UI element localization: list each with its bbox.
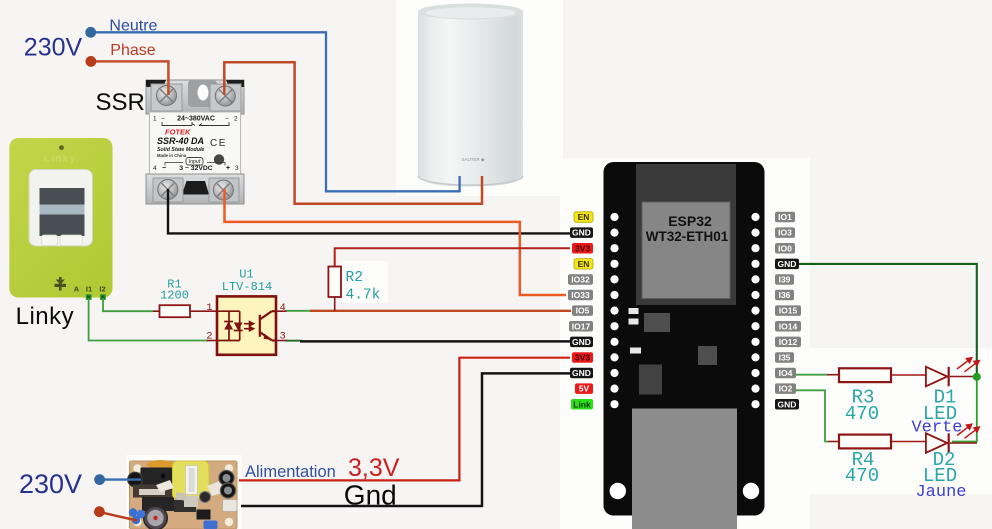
wire SSR terminal 4 to ESP32 GND (black) [168,189,570,233]
Linky top dot [59,145,64,150]
pin label GND2 [570,337,593,348]
svg-text:Phase: Phase [110,42,155,59]
pin label IO2 [775,383,796,394]
svg-text:IO3: IO3 [778,228,792,238]
wire 3V3 to PSU (red) [239,358,570,481]
LED D1 [911,357,980,438]
svg-text:I2: I2 [99,285,105,294]
resistor R2 [328,266,380,311]
svg-text:~: ~ [161,115,165,122]
SSR screw terminal 4 [153,178,183,202]
light arrows [244,322,254,331]
power supply module (PSU) [128,460,237,529]
indicator circle [214,154,224,164]
svg-text:470: 470 [845,465,879,487]
wire GND to opto pin 3 (black) [286,340,303,342]
white patch behind PSU [126,455,242,529]
pin label 5V [575,383,593,394]
svg-text:I35: I35 [779,353,791,363]
pin label IO33 [568,290,593,301]
pin label I36 [775,290,794,301]
svg-text:GND: GND [778,259,797,269]
neutre node dot [85,27,96,38]
svg-text:Jaune: Jaune [915,483,966,502]
PSU board [130,461,238,529]
wire 3V3 to R2 (red) [335,248,570,266]
optocoupler U1 LTV-814 [206,268,286,355]
SSR screw terminal 1 [157,86,177,106]
svg-text:IO2: IO2 [779,384,793,394]
resistor R3 [827,368,926,425]
white photo patch behind water heater [396,0,563,196]
svg-text:SAUTER ◆: SAUTER ◆ [462,157,486,162]
left pin labels [568,212,593,410]
Linky earth/arrow symbol [55,277,67,291]
wire Linky I1 to opto pin 2 (green) [89,298,207,341]
svg-text:LTV-814: LTV-814 [222,280,272,294]
input diodes structure [217,311,240,340]
pin label I35 [775,352,794,363]
neutre wire (blue) [91,32,460,191]
svg-text:IO4: IO4 [779,368,793,378]
svg-text:I36: I36 [779,290,791,300]
pin label EN [574,212,593,223]
svg-text:IO32: IO32 [571,275,590,285]
svg-text:230V: 230V [24,33,83,61]
pin label IO1 [775,212,795,223]
pin label GND right [775,259,799,270]
svg-text:1200: 1200 [160,289,189,303]
PSU input capacitor [128,472,143,487]
svg-text:EN: EN [578,212,590,222]
svg-text:Verte: Verte [911,419,962,438]
svg-text:GND: GND [572,228,591,238]
PSU white connector [223,500,238,512]
svg-text:5V: 5V [579,384,590,394]
svg-text:A: A [74,285,80,294]
SSR screw terminal 3 [209,178,239,202]
svg-text:4.7k: 4.7k [346,288,381,304]
svg-text:4: 4 [153,165,157,172]
resistor R4 [828,435,926,487]
svg-text:R2: R2 [346,270,363,286]
PSU yellow transformer [173,461,210,499]
diode A up [224,322,233,330]
pin holes right [751,213,759,408]
svg-text:I1: I1 [86,285,92,294]
svg-text:230V: 230V [19,469,82,499]
svg-text:Linky: Linky [16,303,75,330]
pin4 stub [276,310,287,312]
pin label IO15 [775,305,801,316]
SSR terminal block 2 [210,84,241,111]
wire GND to PSU (black) [241,373,570,506]
module area [636,164,736,305]
pin label GND [570,227,593,238]
PSU 230V blue input wire [97,478,141,480]
phase wire to SSR terminal 1 [91,61,168,95]
svg-text:EN: EN [578,259,590,269]
svg-text:IO1: IO1 [778,212,792,222]
svg-text:GND: GND [572,368,591,378]
PSU black heatsink [141,468,173,486]
svg-text:WT32-ETH01: WT32-ETH01 [646,229,729,244]
PSU big capacitor [144,506,168,529]
RJ45 connector [632,409,737,529]
wire green segment pin4 [286,310,311,312]
wire SSR terminal 2 to heater [224,62,482,204]
svg-text:+: + [226,165,230,172]
svg-text:IO15: IO15 [779,306,798,316]
pin label EN2 [574,259,593,270]
svg-text:SSR-40 DA: SSR-40 DA [157,136,204,146]
PSU lower black transistor block [142,497,174,511]
PSU black box bottom [197,510,211,520]
water heater [418,4,523,187]
svg-text:1: 1 [206,302,212,314]
SSR terminal block 1 [151,84,182,111]
svg-text:24~380VAC: 24~380VAC [177,115,215,122]
svg-text:IO0: IO0 [778,243,792,253]
pin label GND right2 [775,399,799,410]
phototransistor [260,311,276,340]
board PCB [604,162,765,516]
svg-text:3: 3 [235,165,239,172]
svg-text:~: ~ [225,115,229,122]
wire right GND to LED cathodes (dark green) [799,264,977,373]
svg-text:I39: I39 [779,275,791,285]
svg-text:Neutre: Neutre [109,18,157,35]
pin2 stub [207,340,218,342]
D1 emission arrows [957,357,981,372]
pin label 3V3 [572,243,593,254]
SSR body top metal section [146,80,244,114]
svg-text:Made in China: Made in China [157,153,187,158]
Linky body [9,138,112,298]
phase node dot [86,56,97,67]
wire SSR terminal 3 to IO33 (orange) [225,189,567,295]
white patch behind R2 label [342,261,388,303]
PSU white plastic bits [156,480,174,492]
PSU blue capacitors [129,508,137,516]
svg-text:−: − [162,165,166,172]
shield [642,202,730,299]
svg-text:3,3V: 3,3V [348,454,400,482]
PSU mid dark band [133,485,179,498]
wire IO5 to opto pin 4 [310,310,571,312]
svg-text:CE: CE [210,138,227,149]
pin label 3V3-2 [572,352,593,363]
junction node [973,373,981,381]
SMD parts [629,308,639,314]
svg-text:SSR: SSR [96,89,145,116]
pin label GND3 [570,368,593,379]
svg-text:Linky: Linky [44,153,76,165]
pin label IO0 [775,243,795,254]
right pin labels [775,212,801,410]
pin label IO14 [775,321,801,332]
pin3 stub [276,340,287,342]
pin label IO5 [572,305,593,316]
svg-text:GND: GND [778,399,797,409]
Linky meter [9,138,112,299]
ESP32 WT32-ETH01 board [604,162,765,529]
SSR bottom metal section [146,174,244,204]
mounting holes [610,483,626,499]
svg-text:Alimentation: Alimentation [245,463,336,481]
wire Linky I2 to R1 (green) [103,298,154,311]
pin holes left [610,213,618,408]
Linky buttons [42,235,58,246]
PSU output capacitors [219,470,234,485]
D2 emission arrows [957,423,981,438]
PSU orange capacitor [147,460,174,469]
Input box [186,158,203,166]
svg-text:3 ~ 32VDC: 3 ~ 32VDC [179,165,213,172]
pin label Link [571,399,593,410]
svg-text:IO14: IO14 [779,321,798,331]
pin label IO12 [775,337,801,348]
PSU small caps center [200,492,211,503]
svg-text:IO17: IO17 [572,321,591,331]
svg-text:Gnd: Gnd [344,479,397,510]
Linky terminal I2 [101,295,106,300]
LED D2 [915,423,980,502]
svg-text:IO33: IO33 [571,290,590,300]
PSU blue node dot [94,474,105,485]
pin label I39 [775,274,794,285]
svg-text:IO12: IO12 [779,337,798,347]
pin label IO32 [568,274,593,285]
SSR white label face [150,112,241,174]
PSU red node dot [94,506,105,517]
Linky terminal I1 [86,295,91,300]
white patch behind LED schematic [800,348,992,494]
svg-text:IO5: IO5 [576,306,590,316]
svg-text:1: 1 [153,115,157,122]
PSU 230V red input wire [98,512,137,521]
pin label IO4 [775,368,796,379]
Linky display bezel [29,170,93,247]
wire IO4 to R3 (green) [796,374,827,376]
pin label IO3 [775,227,795,238]
wire IO2 to R4 (green) [796,390,828,441]
SSR screw terminal 2 [215,86,235,106]
SSR relay module [146,80,244,204]
wire junction to D2 cathode (green) [952,377,977,442]
white photo patch behind ESP32 board [560,158,810,529]
resistor R1 [153,278,217,318]
svg-text:2: 2 [234,115,238,122]
Linky display screen [40,188,85,236]
svg-text:3V3: 3V3 [575,353,590,363]
svg-text:ESP32: ESP32 [668,213,712,229]
svg-text:470: 470 [845,403,879,425]
svg-text:3V3: 3V3 [575,243,590,253]
svg-text:Link: Link [573,399,591,409]
svg-text:GND: GND [572,337,591,347]
pin label IO17 [569,321,593,332]
diode B down [234,323,243,331]
